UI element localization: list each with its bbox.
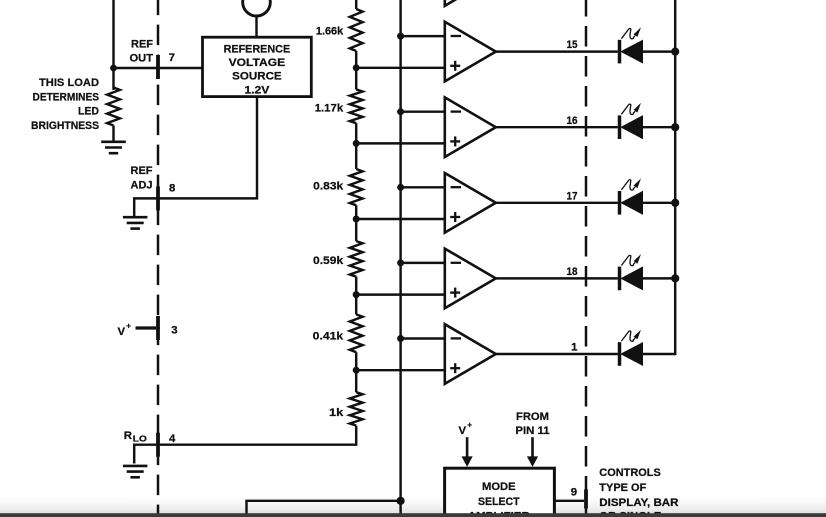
block: MODE SELECT AMPLIFIER	[445, 468, 555, 517]
wire: LED anode rail	[674, 0, 676, 355]
svg-text:+: +	[126, 321, 131, 330]
svg-text:7: 7	[169, 52, 175, 64]
node: signal bus junction 2	[397, 108, 404, 115]
LED D1 (pin 15)	[618, 40, 622, 64]
wire: signal bus to buffer (bottom, cropped)	[247, 501, 401, 514]
node: signal bus junction 3	[397, 184, 404, 191]
minus symbol	[451, 337, 461, 339]
wire: minus input comparator 5	[401, 337, 447, 339]
op-amp comparator C1	[445, 22, 496, 82]
resistor 0.59k of divider	[349, 241, 364, 277]
wire: minus input comparator 3	[401, 186, 447, 188]
plus symbol	[450, 291, 460, 293]
LED D3 (pin 17)	[618, 191, 622, 215]
viewer bottom bar	[0, 513, 826, 517]
svg-text:VOLTAGE: VOLTAGE	[229, 57, 286, 69]
op-amp comparator C3	[445, 173, 496, 233]
wire: reference box bottom to REF ADJ pin 8	[134, 97, 257, 217]
wire: comparator 3 output to LED pin 17	[496, 202, 618, 204]
LED light arrow	[621, 104, 633, 114]
wire: circle to reference box	[255, 16, 257, 37]
svg-text:1k: 1k	[329, 407, 344, 419]
LED light arrow	[621, 29, 633, 39]
svg-text:LED: LED	[78, 106, 99, 118]
resistor 1.17k of divider	[349, 89, 364, 123]
wire: LED anode to rail	[643, 353, 676, 355]
svg-text:9: 9	[571, 486, 577, 498]
svg-text:ADJ: ADJ	[131, 180, 153, 192]
ground load	[101, 141, 126, 144]
LED light arrow	[621, 255, 633, 265]
pin 9 tick	[584, 489, 588, 508]
LED D4 (pin 18)	[618, 267, 622, 291]
node: bus bottom junction	[397, 497, 405, 505]
svg-text:0.59k: 0.59k	[313, 255, 344, 267]
svg-text:CONTROLS: CONTROLS	[599, 467, 661, 479]
pin 4 tick	[156, 433, 160, 457]
svg-text:REFERENCE: REFERENCE	[224, 43, 291, 55]
wire: plus input comparator 5 from divider tap	[356, 369, 447, 371]
wire: LED anode to rail	[643, 50, 676, 52]
wire: LED anode to rail	[643, 202, 676, 204]
node: divider tap 5	[353, 367, 360, 374]
svg-text:THIS LOAD: THIS LOAD	[39, 77, 99, 89]
svg-text:3: 3	[171, 325, 177, 337]
wire: REF OUT pin 7 horizontal to reference box	[114, 67, 204, 69]
svg-text:1.17k: 1.17k	[315, 103, 344, 115]
svg-text:1.2V: 1.2V	[244, 84, 269, 96]
svg-text:0.41k: 0.41k	[313, 330, 344, 342]
svg-text:MODE: MODE	[482, 481, 516, 493]
wire: divider chain spine	[355, 0, 357, 426]
ground R_LO	[123, 465, 147, 468]
minus symbol	[451, 186, 461, 188]
svg-text:17: 17	[567, 190, 578, 202]
minus symbol	[451, 262, 461, 264]
LED D2 (pin 16)	[618, 115, 622, 139]
op-amp comparator (cropped, above)	[445, 0, 496, 6]
current source circle (cropped at top)	[243, 0, 271, 16]
wire: comparator 1 output to LED pin 15	[496, 50, 618, 52]
wire: plus input comparator 2 from divider tap	[356, 142, 447, 144]
svg-text:TYPE OF: TYPE OF	[599, 482, 646, 494]
wire: mode select pin 9	[554, 500, 584, 502]
svg-text:18: 18	[567, 266, 578, 278]
dashed IC boundary (left)	[157, 0, 160, 514]
svg-text:0.83k: 0.83k	[313, 181, 344, 193]
svg-text:LO: LO	[133, 434, 148, 443]
wire: load resistor to ground	[112, 126, 114, 142]
op-amp comparator C2	[445, 97, 496, 157]
block U: REFERENCE VOLTAGE SOURCE 1.2V	[203, 37, 312, 96]
svg-text:SELECT: SELECT	[478, 496, 520, 508]
wire: comparator 2 output to LED pin 16	[496, 126, 618, 128]
resistor 1.66k of divider	[349, 9, 364, 51]
pin 7 tick	[156, 55, 160, 79]
V+ pin 3 stub	[136, 326, 157, 329]
node: divider tap 4	[353, 291, 360, 298]
wire: plus input comparator 4 from divider tap	[356, 293, 447, 295]
LED light arrow	[621, 331, 633, 341]
wire: plus input comparator 3 from divider tap	[356, 218, 447, 220]
svg-text:R: R	[124, 430, 132, 442]
wire: minus input comparator 4	[401, 262, 447, 264]
svg-text:REF: REF	[131, 165, 153, 177]
node: junction REF OUT / load	[110, 65, 117, 72]
svg-text:DISPLAY, BAR: DISPLAY, BAR	[599, 497, 678, 509]
node: rail junction	[671, 274, 679, 282]
node: rail junction	[671, 48, 679, 56]
resistor 0.41k of divider	[349, 314, 364, 352]
svg-text:1.66k: 1.66k	[316, 26, 344, 38]
arrow: V+ into mode select	[466, 437, 469, 457]
plus symbol	[450, 65, 460, 67]
op-amp comparator C5	[445, 324, 496, 384]
svg-text:DETERMINES: DETERMINES	[33, 91, 100, 103]
svg-text:15: 15	[567, 39, 579, 51]
pin 8 tick	[156, 186, 160, 210]
wire: minus input comparator 1	[401, 35, 447, 37]
svg-text:1: 1	[571, 342, 578, 354]
arrow: from pin 11 into mode select	[531, 437, 534, 457]
node: signal bus junction 1	[397, 33, 404, 40]
node: rail junction	[671, 123, 679, 131]
wire: R_LO pin 4 to divider bottom	[134, 426, 356, 464]
svg-text:8: 8	[169, 182, 175, 194]
svg-text:+: +	[467, 420, 472, 429]
resistor: LED brightness load	[107, 88, 120, 126]
wire: plus input comparator 1 from divider tap	[356, 67, 447, 69]
svg-text:4: 4	[169, 433, 176, 445]
node: signal bus junction 5	[397, 335, 404, 342]
wire: comparator 5 output to LED pin 1	[496, 353, 618, 355]
node: divider tap 2	[353, 140, 360, 147]
dashed IC boundary (right)	[585, 0, 588, 514]
svg-text:REF: REF	[131, 38, 153, 50]
op-amp comparator C4	[445, 249, 496, 309]
svg-text:FROM: FROM	[516, 411, 549, 423]
svg-text:BRIGHTNESS: BRIGHTNESS	[31, 120, 99, 132]
node: rail junction	[671, 199, 679, 207]
wire: LED anode to rail	[643, 126, 676, 128]
svg-text:V: V	[118, 326, 126, 338]
minus symbol	[451, 35, 461, 37]
minus symbol	[451, 110, 461, 112]
resistor 0.83k of divider	[349, 169, 364, 205]
svg-text:SOURCE: SOURCE	[232, 71, 282, 83]
resistor 1k of divider	[349, 392, 364, 425]
plus symbol	[450, 367, 460, 369]
wire: comparator 4 output to LED pin 18	[496, 277, 618, 279]
node: divider tap 3	[353, 216, 360, 223]
node: signal bus junction 4	[397, 259, 404, 266]
ground ref adj	[123, 216, 147, 219]
svg-text:PIN 11: PIN 11	[515, 425, 550, 437]
svg-text:V: V	[459, 425, 467, 437]
node: divider tap 1	[353, 64, 360, 71]
LED D5 (pin 1)	[618, 342, 622, 366]
plus symbol	[450, 140, 460, 142]
wire: minus input comparator 2	[401, 110, 447, 112]
LED light arrow	[621, 180, 633, 190]
plus symbol	[450, 216, 460, 218]
signal bus vertical	[399, 0, 401, 514]
wire: left rail from top to REF OUT junction	[112, 0, 114, 90]
svg-text:OUT: OUT	[130, 53, 154, 65]
wire: LED anode to rail	[643, 277, 676, 279]
svg-text:16: 16	[567, 115, 578, 127]
